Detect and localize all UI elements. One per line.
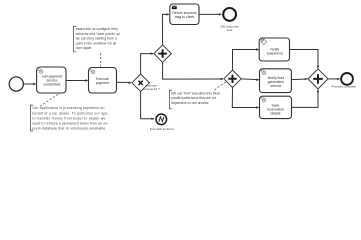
svg-text:we can retry starting from a: we can retry starting from a (76, 37, 117, 41)
svg-text:details: details (270, 112, 280, 116)
send envelope icon (172, 6, 177, 9)
error end event End with an Error (156, 114, 167, 125)
task Return success msg to client (170, 4, 199, 25)
end event 200 response sent (223, 8, 236, 21)
wire taskA to join gateway G3 (290, 50, 319, 69)
wire G2 up to task Notify Salesforce (233, 50, 259, 71)
svg-text:msg to client: msg to client (175, 15, 195, 19)
wire taskB to join gateway G3 (291, 78, 307, 81)
dashed association to task1 (40, 94, 59, 106)
service gear icon task2 (90, 69, 95, 74)
service gear icon taskA (261, 39, 267, 45)
wire G2 right to task Notify lead (241, 78, 258, 81)
task Get payment service credentials (37, 67, 66, 93)
wire G3 to end event process complete (328, 78, 340, 80)
dashed association to task2 (100, 53, 102, 67)
parallel gateway G3 join (308, 69, 328, 89)
svg-text:Salesforce: Salesforce (267, 52, 284, 56)
svg-text:credentials: credentials (44, 83, 61, 87)
parallel gateway G1 (154, 45, 171, 62)
svg-text:successful ?: successful ? (143, 87, 160, 91)
wire task to end event 200 (199, 13, 221, 15)
wire G1 down to parallel gateway G2 (163, 62, 223, 79)
wire xor down to error end event (141, 92, 154, 119)
svg-text:payment: payment (96, 81, 109, 85)
task Save reservation details (260, 96, 292, 118)
svg-text:sent: sent (227, 28, 233, 32)
svg-text:behalf of a car dealer. To aut: behalf of a car dealer. To authorize our… (32, 111, 107, 115)
xor gateway payment successful? (132, 74, 150, 92)
svg-text:dependent on one another.: dependent on one another. (171, 101, 209, 105)
service gear icon taskC (261, 97, 266, 102)
svg-text:parallel paths since they are: parallel paths since they are not (171, 96, 216, 100)
annotation We can fork (169, 90, 172, 109)
wire task1 to task2 (66, 80, 88, 82)
task Notify lead generation service (260, 69, 292, 93)
svg-text:Process complete: Process complete (332, 85, 357, 89)
wire start to task Get payment (23, 83, 35, 85)
svg-text:behavior and “save points” so: behavior and “save points” so (76, 32, 121, 36)
parallel gateway G2 (224, 70, 241, 87)
wire xor up to parallel gateway G1 (141, 54, 153, 74)
end event Process complete (341, 73, 353, 85)
wire G1 up to task Return success msg (162, 14, 168, 45)
svg-text:point in the workflow VS all: point in the workflow VS all (76, 41, 117, 45)
annotation Our application (30, 105, 33, 131)
wire G2 down to task Save reservation (232, 88, 258, 108)
svg-text:Our application is processing: Our application is processing payments o… (32, 106, 104, 110)
service gear icon task1 (38, 69, 43, 74)
task Notify Salesforce (259, 38, 289, 61)
svg-text:We can “fork” execution into t: We can “fork” execution into three (171, 91, 220, 95)
start event (9, 77, 23, 91)
svg-text:to transfer money from buyer t: to transfer money from buyer to dealer w… (32, 116, 105, 120)
svg-text:service: service (270, 84, 281, 88)
svg-text:End with an Error: End with an Error (150, 127, 174, 131)
svg-text:prem database that is notoriou: prem database that is notoriously unreli… (32, 127, 106, 131)
wire taskC to join gateway G3 (292, 90, 319, 108)
dashed association to G2 (215, 81, 228, 90)
service gear icon taskB (261, 70, 266, 75)
svg-text:over again: over again (76, 46, 92, 50)
svg-text:esaka lets us configure retry: esaka lets us configure retry (76, 27, 119, 31)
svg-text:need to retrieve a permanent t: need to retrieve a permanent token from … (32, 122, 108, 126)
annotation esaka lets us (74, 26, 77, 52)
wire task2 to xor gateway (117, 81, 131, 83)
task Execute payment (89, 68, 117, 94)
